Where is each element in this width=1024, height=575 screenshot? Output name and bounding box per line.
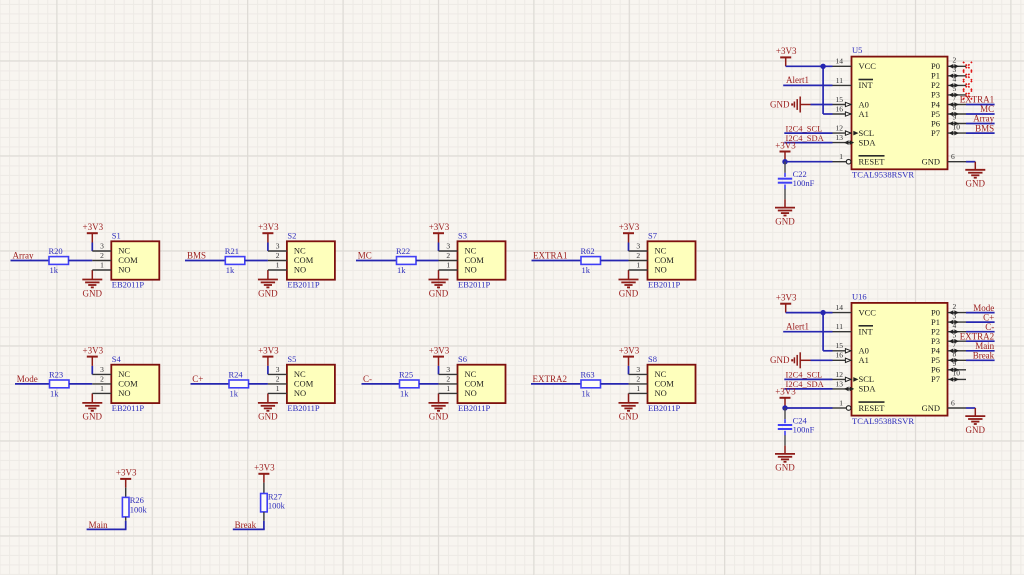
- resistor R63 1k: [581, 380, 601, 388]
- svg-text:P7: P7: [931, 128, 940, 138]
- svg-text:16: 16: [836, 351, 844, 360]
- svg-text:NO: NO: [294, 265, 306, 275]
- svg-text:10: 10: [953, 122, 961, 131]
- svg-text:R62: R62: [581, 246, 595, 256]
- wire: [91, 243, 93, 252]
- resistor R27 100k: [261, 494, 268, 512]
- svg-text:GND: GND: [83, 288, 103, 298]
- ground: [974, 408, 976, 416]
- svg-text:RESET: RESET: [859, 157, 886, 167]
- svg-text:Break: Break: [973, 351, 995, 361]
- svg-text:Mode: Mode: [973, 303, 994, 313]
- wire: [784, 435, 786, 445]
- svg-text:3: 3: [276, 365, 280, 374]
- svg-text:2: 2: [446, 251, 450, 260]
- svg-text:11: 11: [836, 76, 843, 85]
- svg-text:BMS: BMS: [187, 251, 206, 261]
- svg-text:16: 16: [836, 104, 844, 113]
- svg-text:S1: S1: [112, 231, 121, 241]
- svg-text:NO: NO: [118, 388, 130, 398]
- wire: [966, 350, 995, 352]
- svg-text:2: 2: [446, 375, 450, 384]
- svg-text:10: 10: [953, 369, 961, 378]
- svg-text:EB2011P: EB2011P: [458, 403, 491, 413]
- ground: [628, 270, 630, 280]
- pin 1 NO: [629, 392, 648, 394]
- wire VCC: [786, 65, 833, 67]
- svg-text:NO: NO: [465, 388, 477, 398]
- pin 7 P4: [948, 104, 967, 106]
- no-ERC marker P0: [963, 62, 972, 71]
- svg-text:3: 3: [636, 365, 640, 374]
- svg-text:8: 8: [953, 350, 957, 359]
- pin 3 NC: [92, 250, 111, 252]
- pin 2 COM: [268, 260, 287, 262]
- svg-text:8: 8: [953, 103, 957, 112]
- svg-text:2: 2: [953, 302, 957, 311]
- svg-text:C+: C+: [983, 312, 994, 322]
- svg-text:S8: S8: [648, 354, 657, 364]
- wire: [811, 104, 833, 106]
- svg-text:GND: GND: [966, 425, 986, 435]
- svg-text:VCC: VCC: [859, 61, 877, 71]
- svg-text:+3V3: +3V3: [775, 140, 796, 150]
- svg-text:GND: GND: [429, 288, 449, 298]
- svg-text:C+: C+: [192, 374, 203, 384]
- svg-text:INT: INT: [859, 80, 874, 90]
- pin 2 COM: [92, 260, 111, 262]
- pin 3 NC: [92, 373, 111, 375]
- svg-text:3: 3: [100, 242, 104, 251]
- svg-text:GND: GND: [966, 179, 986, 189]
- switch S1 EB2011P: [111, 241, 159, 279]
- svg-text:R25: R25: [399, 370, 413, 380]
- no-ERC marker P3: [963, 90, 972, 99]
- pin 3 P1: [948, 321, 967, 323]
- svg-text:NO: NO: [465, 265, 477, 275]
- svg-text:P7: P7: [931, 374, 940, 384]
- wire: [419, 383, 439, 385]
- svg-text:EB2011P: EB2011P: [287, 403, 320, 413]
- svg-text:3: 3: [100, 365, 104, 374]
- pin 1 NO: [92, 269, 111, 271]
- svg-text:2: 2: [276, 251, 280, 260]
- svg-text:P0: P0: [931, 307, 940, 317]
- svg-text:Array: Array: [13, 251, 34, 261]
- svg-text:1k: 1k: [397, 265, 406, 275]
- wire: [966, 321, 995, 323]
- wire: [784, 378, 832, 380]
- svg-text:+3V3: +3V3: [429, 345, 450, 355]
- svg-text:EXTRA2: EXTRA2: [533, 374, 568, 384]
- pin 7 P4: [948, 350, 967, 352]
- svg-text:INT: INT: [859, 327, 874, 337]
- svg-text:100nF: 100nF: [793, 178, 815, 188]
- svg-text:1k: 1k: [400, 388, 409, 398]
- svg-text:+3V3: +3V3: [83, 345, 104, 355]
- svg-text:12: 12: [836, 124, 844, 133]
- svg-text:P0: P0: [931, 61, 940, 71]
- svg-text:+3V3: +3V3: [776, 293, 797, 303]
- wire: [438, 243, 440, 252]
- svg-text:R20: R20: [49, 246, 63, 256]
- svg-text:2: 2: [100, 251, 104, 260]
- svg-text:EXTRA1: EXTRA1: [533, 251, 568, 261]
- svg-text:I2C4_SCL: I2C4_SCL: [786, 370, 823, 380]
- svg-text:GND: GND: [429, 412, 449, 422]
- pin 3 NC: [439, 250, 458, 252]
- svg-text:A1: A1: [859, 355, 869, 365]
- resistor R23 1k: [50, 380, 70, 388]
- wire: [966, 340, 995, 342]
- svg-text:P6: P6: [931, 118, 940, 128]
- svg-text:6: 6: [951, 152, 955, 161]
- pin 13 SDA: [833, 142, 852, 144]
- pin 16 A1: [833, 359, 852, 361]
- svg-text:EB2011P: EB2011P: [287, 280, 320, 290]
- pin 15 A0: [833, 350, 852, 352]
- pin 8 P5: [948, 359, 967, 361]
- svg-text:Alert1: Alert1: [786, 75, 809, 85]
- switch S6 EB2011P: [458, 365, 506, 403]
- svg-text:+3V3: +3V3: [429, 222, 450, 232]
- svg-text:3: 3: [446, 365, 450, 374]
- wire: [356, 260, 397, 262]
- pin 14 VCC: [833, 65, 852, 67]
- ground: [974, 162, 976, 170]
- wire: [532, 260, 582, 262]
- pin 14 VCC: [833, 312, 852, 314]
- svg-text:P2: P2: [931, 80, 940, 90]
- svg-text:EB2011P: EB2011P: [112, 403, 145, 413]
- svg-text:3: 3: [953, 311, 957, 320]
- svg-text:11: 11: [836, 322, 843, 331]
- svg-text:100k: 100k: [268, 501, 286, 511]
- svg-text:GND: GND: [770, 355, 790, 365]
- svg-text:Break: Break: [235, 520, 257, 530]
- pin 10 P7: [948, 132, 967, 134]
- junction: [782, 405, 787, 410]
- svg-text:C-: C-: [985, 322, 994, 332]
- svg-text:VCC: VCC: [859, 307, 877, 317]
- svg-text:P2: P2: [931, 327, 940, 337]
- ground: [267, 393, 269, 403]
- svg-text:9: 9: [953, 359, 957, 368]
- svg-text:1: 1: [100, 384, 104, 393]
- pin 1 NO: [268, 392, 287, 394]
- svg-text:MC: MC: [358, 251, 372, 261]
- svg-text:SDA: SDA: [859, 137, 877, 147]
- svg-text:COM: COM: [118, 379, 138, 389]
- capacitor C22 100nF: [784, 162, 786, 173]
- pin 6 GND: [948, 407, 967, 409]
- pin 11 INT: [833, 331, 852, 333]
- pin 1 NO: [268, 269, 287, 271]
- svg-text:NC: NC: [294, 369, 306, 379]
- svg-text:2: 2: [636, 251, 640, 260]
- svg-text:NO: NO: [655, 388, 667, 398]
- svg-text:GND: GND: [922, 157, 940, 167]
- svg-text:COM: COM: [465, 255, 485, 265]
- svg-text:+3V3: +3V3: [775, 387, 796, 397]
- wire: [125, 517, 127, 521]
- no-ERC marker P2: [963, 81, 972, 90]
- svg-text:NO: NO: [655, 265, 667, 275]
- ground: [784, 199, 786, 207]
- svg-text:R22: R22: [396, 246, 410, 256]
- wire: [438, 366, 440, 375]
- pin 9 P6: [948, 369, 967, 371]
- wire: [966, 331, 995, 333]
- svg-text:NO: NO: [294, 388, 306, 398]
- switch S5 EB2011P: [287, 365, 335, 403]
- wire: [245, 260, 268, 262]
- pin 3 NC: [439, 373, 458, 375]
- resistor R24 1k: [229, 380, 249, 388]
- svg-text:14: 14: [836, 57, 844, 66]
- wire: [811, 359, 833, 361]
- svg-text:S7: S7: [648, 231, 657, 241]
- svg-text:15: 15: [836, 95, 844, 104]
- svg-text:R63: R63: [581, 370, 595, 380]
- svg-text:100nF: 100nF: [793, 424, 815, 434]
- svg-text:Main: Main: [975, 341, 994, 351]
- svg-text:3: 3: [446, 242, 450, 251]
- junction: [820, 310, 825, 315]
- wire: [966, 161, 975, 163]
- pin 3 NC: [629, 373, 648, 375]
- svg-text:12: 12: [836, 370, 844, 379]
- svg-text:U5: U5: [852, 45, 862, 55]
- wire: [267, 243, 269, 252]
- svg-text:NC: NC: [465, 246, 477, 256]
- pin 3 P1: [948, 75, 967, 77]
- svg-text:1k: 1k: [230, 388, 239, 398]
- ground: [91, 270, 93, 280]
- pin 13 SDA: [833, 388, 852, 390]
- pin 1 RESET: [833, 161, 847, 163]
- pin 11 INT: [833, 84, 852, 86]
- svg-text:+3V3: +3V3: [254, 463, 275, 473]
- svg-text:4: 4: [953, 321, 957, 330]
- junction: [820, 64, 825, 69]
- pin 2 COM: [439, 260, 458, 262]
- svg-text:SCL: SCL: [859, 128, 875, 138]
- pin 3 NC: [268, 250, 287, 252]
- svg-text:EXTRA1: EXTRA1: [960, 95, 995, 105]
- svg-text:Mode: Mode: [17, 374, 38, 384]
- op-amp U16 TCAL9538RSVR body: [852, 303, 948, 416]
- resistor R26 100k: [122, 497, 129, 517]
- svg-text:MC: MC: [980, 104, 994, 114]
- svg-text:NC: NC: [118, 246, 130, 256]
- svg-text:P1: P1: [931, 317, 940, 327]
- junction: [782, 159, 787, 164]
- svg-text:+3V3: +3V3: [116, 468, 137, 478]
- svg-text:1: 1: [276, 261, 280, 270]
- wire: [966, 123, 995, 125]
- svg-text:NO: NO: [118, 265, 130, 275]
- svg-text:EB2011P: EB2011P: [648, 403, 681, 413]
- pin 2 COM: [629, 260, 648, 262]
- svg-text:1: 1: [636, 384, 640, 393]
- svg-text:P4: P4: [931, 346, 941, 356]
- svg-text:2: 2: [100, 375, 104, 384]
- svg-text:NC: NC: [655, 369, 667, 379]
- svg-text:+3V3: +3V3: [258, 222, 279, 232]
- svg-text:3: 3: [636, 242, 640, 251]
- svg-text:RESET: RESET: [859, 403, 886, 413]
- pin 3 NC: [268, 373, 287, 375]
- ground: [438, 270, 440, 280]
- pin 12 SCL: [833, 132, 852, 134]
- svg-text:P3: P3: [931, 90, 940, 100]
- wire INT: [783, 84, 832, 86]
- svg-text:13: 13: [836, 133, 844, 142]
- wire: [966, 104, 995, 106]
- svg-text:P5: P5: [931, 109, 940, 119]
- pin 1 RESET: [833, 407, 847, 409]
- wire: [69, 260, 93, 262]
- svg-text:2: 2: [953, 56, 957, 65]
- svg-text:NC: NC: [118, 369, 130, 379]
- svg-text:1k: 1k: [582, 265, 591, 275]
- wire: [784, 132, 832, 134]
- pin 3 NC: [629, 250, 648, 252]
- switch S3 EB2011P: [458, 241, 506, 279]
- wire: [966, 132, 995, 134]
- pin 16 A1: [833, 113, 852, 115]
- wire: [263, 512, 265, 521]
- wire branch to address pin: [822, 313, 824, 351]
- svg-text:GND: GND: [775, 463, 795, 473]
- pin 2 COM: [268, 383, 287, 385]
- svg-text:P6: P6: [931, 365, 940, 375]
- pin 2 P0: [948, 65, 967, 67]
- wire: [628, 366, 630, 375]
- wire: [966, 359, 995, 361]
- svg-text:BMS: BMS: [975, 123, 994, 133]
- no-ERC marker P1: [963, 71, 972, 80]
- pin 5 P3: [948, 340, 967, 342]
- wire: [15, 383, 50, 385]
- svg-text:9: 9: [953, 113, 957, 122]
- svg-text:+3V3: +3V3: [258, 345, 279, 355]
- svg-text:GND: GND: [258, 288, 278, 298]
- pin 1 NO: [92, 392, 111, 394]
- wire branch to address pin: [822, 66, 824, 114]
- svg-text:15: 15: [836, 341, 844, 350]
- wire: [531, 383, 581, 385]
- svg-text:SCL: SCL: [859, 374, 875, 384]
- pin 2 COM: [629, 383, 648, 385]
- svg-text:R23: R23: [49, 370, 63, 380]
- svg-text:2: 2: [276, 375, 280, 384]
- svg-text:S3: S3: [458, 231, 467, 241]
- wire INT: [783, 331, 832, 333]
- wire: [11, 260, 50, 262]
- wire RESET: [785, 407, 833, 409]
- pin 8 P5: [948, 113, 967, 115]
- pin 2 COM: [439, 383, 458, 385]
- ground: [628, 393, 630, 403]
- svg-text:NC: NC: [655, 246, 667, 256]
- svg-text:7: 7: [953, 94, 957, 103]
- resistor R25 1k: [400, 380, 420, 388]
- svg-text:SDA: SDA: [859, 384, 877, 394]
- resistor R62 1k: [581, 257, 601, 265]
- svg-text:A1: A1: [859, 109, 869, 119]
- svg-text:COM: COM: [294, 379, 314, 389]
- pin 15 A0: [833, 104, 852, 106]
- wire: [362, 383, 400, 385]
- svg-text:3: 3: [276, 242, 280, 251]
- pin 1 NO: [629, 269, 648, 271]
- svg-text:100k: 100k: [130, 505, 148, 515]
- wire: [69, 383, 92, 385]
- svg-text:1k: 1k: [226, 265, 235, 275]
- svg-text:+3V3: +3V3: [619, 222, 640, 232]
- capacitor C24 100nF: [784, 408, 786, 419]
- svg-text:5: 5: [953, 84, 957, 93]
- svg-text:R21: R21: [225, 246, 239, 256]
- svg-text:1: 1: [446, 261, 450, 270]
- svg-text:1k: 1k: [50, 388, 59, 398]
- wire: [191, 383, 230, 385]
- pin 5 P3: [948, 94, 967, 96]
- svg-text:1: 1: [100, 261, 104, 270]
- wire: [267, 366, 269, 375]
- svg-text:COM: COM: [655, 255, 675, 265]
- svg-text:EB2011P: EB2011P: [648, 280, 681, 290]
- wire: [966, 113, 995, 115]
- svg-text:GND: GND: [619, 412, 639, 422]
- pin 2 P0: [948, 312, 967, 314]
- ground: [91, 393, 93, 403]
- wire: [125, 488, 127, 498]
- wire: [91, 366, 93, 375]
- svg-text:TCAL9538RSVR: TCAL9538RSVR: [852, 170, 914, 180]
- svg-text:2: 2: [636, 375, 640, 384]
- pin 10 P7: [948, 378, 967, 380]
- svg-text:3: 3: [953, 65, 957, 74]
- svg-text:A0: A0: [859, 346, 869, 356]
- svg-text:GND: GND: [770, 99, 790, 109]
- pin 1 NO: [439, 269, 458, 271]
- ground: [784, 446, 786, 454]
- pin 1 NO: [439, 392, 458, 394]
- svg-text:P3: P3: [931, 336, 940, 346]
- svg-text:1: 1: [636, 261, 640, 270]
- svg-text:1: 1: [276, 384, 280, 393]
- svg-text:6: 6: [951, 398, 955, 407]
- svg-text:R24: R24: [229, 370, 244, 380]
- wire RESET: [785, 161, 833, 163]
- pin 4 P2: [948, 331, 967, 333]
- svg-text:S5: S5: [287, 354, 296, 364]
- svg-text:P4: P4: [931, 99, 941, 109]
- switch S7 EB2011P: [648, 241, 696, 279]
- ground: [267, 270, 269, 280]
- svg-text:S2: S2: [287, 231, 296, 241]
- wire: [185, 260, 225, 262]
- svg-text:GND: GND: [258, 412, 278, 422]
- svg-text:COM: COM: [465, 379, 485, 389]
- switch S2 EB2011P: [287, 241, 335, 279]
- svg-text:GND: GND: [619, 288, 639, 298]
- svg-text:1: 1: [839, 398, 843, 407]
- wire: [628, 243, 630, 252]
